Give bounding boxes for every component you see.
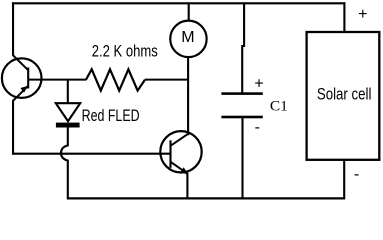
wire Q1 base to resistor xyxy=(28,79,86,81)
wire top rail xyxy=(12,2,346,4)
svg-text:-: - xyxy=(354,166,359,183)
svg-text:Solar cell: Solar cell xyxy=(317,85,372,104)
svg-text:M: M xyxy=(181,29,194,46)
wire LED cathode down with hop over base wire xyxy=(61,127,68,198)
transistor Q1 (PNP) xyxy=(2,55,42,101)
wire motor bottom to Q2 collector xyxy=(187,57,189,135)
wire C1 bottom lead xyxy=(241,118,243,199)
capacitor C1 bottom plate xyxy=(221,116,262,119)
wire left rail (top rail to Q1 collector) xyxy=(12,2,14,56)
wire bottom rail xyxy=(67,197,345,199)
svg-text:C1: C1 xyxy=(270,99,288,115)
wire motor top lead xyxy=(188,2,190,21)
svg-text:+: + xyxy=(358,6,367,23)
wire C1 top lead (with jog) xyxy=(242,2,244,93)
wire Q1 emitter down leg xyxy=(12,100,14,155)
wire Q1 emitter to Q2 base xyxy=(12,153,171,155)
wire resistor to Q2 collector node xyxy=(145,79,189,81)
wire solar cell bottom lead xyxy=(343,160,345,198)
solar cell PV1 xyxy=(307,32,380,160)
wire solar cell top lead xyxy=(343,2,345,32)
motor M1 xyxy=(170,21,206,57)
wire Q2 emitter to bottom rail xyxy=(186,173,188,198)
svg-text:+: + xyxy=(254,76,263,93)
transistor Q2 (NPN) xyxy=(160,131,201,174)
svg-text:Red FLED: Red FLED xyxy=(82,107,140,125)
resistor R1 2.2K xyxy=(86,69,145,90)
capacitor C1 top plate xyxy=(221,92,262,95)
svg-text:-: - xyxy=(255,119,260,136)
svg-text:2.2 K ohms: 2.2 K ohms xyxy=(92,42,158,60)
LED D1 (Red FLED) xyxy=(56,103,80,127)
wire LED branch from resistor node down to LED anode xyxy=(67,80,69,104)
